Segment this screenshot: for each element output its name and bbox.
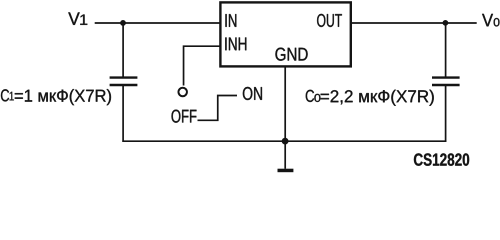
- wire Co bottom lead: [445, 86, 447, 142]
- wire Co top lead: [445, 23, 447, 77]
- ground: [278, 141, 294, 172]
- label CS12820: [414, 153, 469, 165]
- label Co value: [306, 90, 434, 106]
- wire GND pin: [284, 66, 286, 141]
- junction input node: [120, 20, 126, 26]
- wire input V1 to IN: [95, 22, 221, 24]
- capacitor Co: [432, 78, 460, 85]
- waveform ON/OFF control: [198, 96, 238, 121]
- pin label OUT: [317, 14, 342, 27]
- regulator U1: [220, 2, 350, 66]
- wire C1 bottom lead: [122, 86, 124, 142]
- capacitor C1: [110, 78, 138, 85]
- wire C1 top lead: [122, 23, 124, 77]
- junction ground node: [282, 138, 289, 145]
- label ON: [243, 87, 262, 100]
- wire OUT to Vo: [352, 22, 477, 24]
- pin label IN: [225, 14, 236, 27]
- wire INH: [184, 46, 221, 85]
- pin label INH: [225, 37, 246, 50]
- node V1: [68, 12, 87, 24]
- pin label GND: [275, 48, 307, 61]
- terminal INH control: [178, 88, 187, 97]
- label OFF: [172, 110, 197, 123]
- node Vo: [482, 14, 499, 27]
- label C1 value: [1, 89, 111, 105]
- wire ground rail: [122, 140, 446, 142]
- junction output node: [443, 20, 449, 26]
